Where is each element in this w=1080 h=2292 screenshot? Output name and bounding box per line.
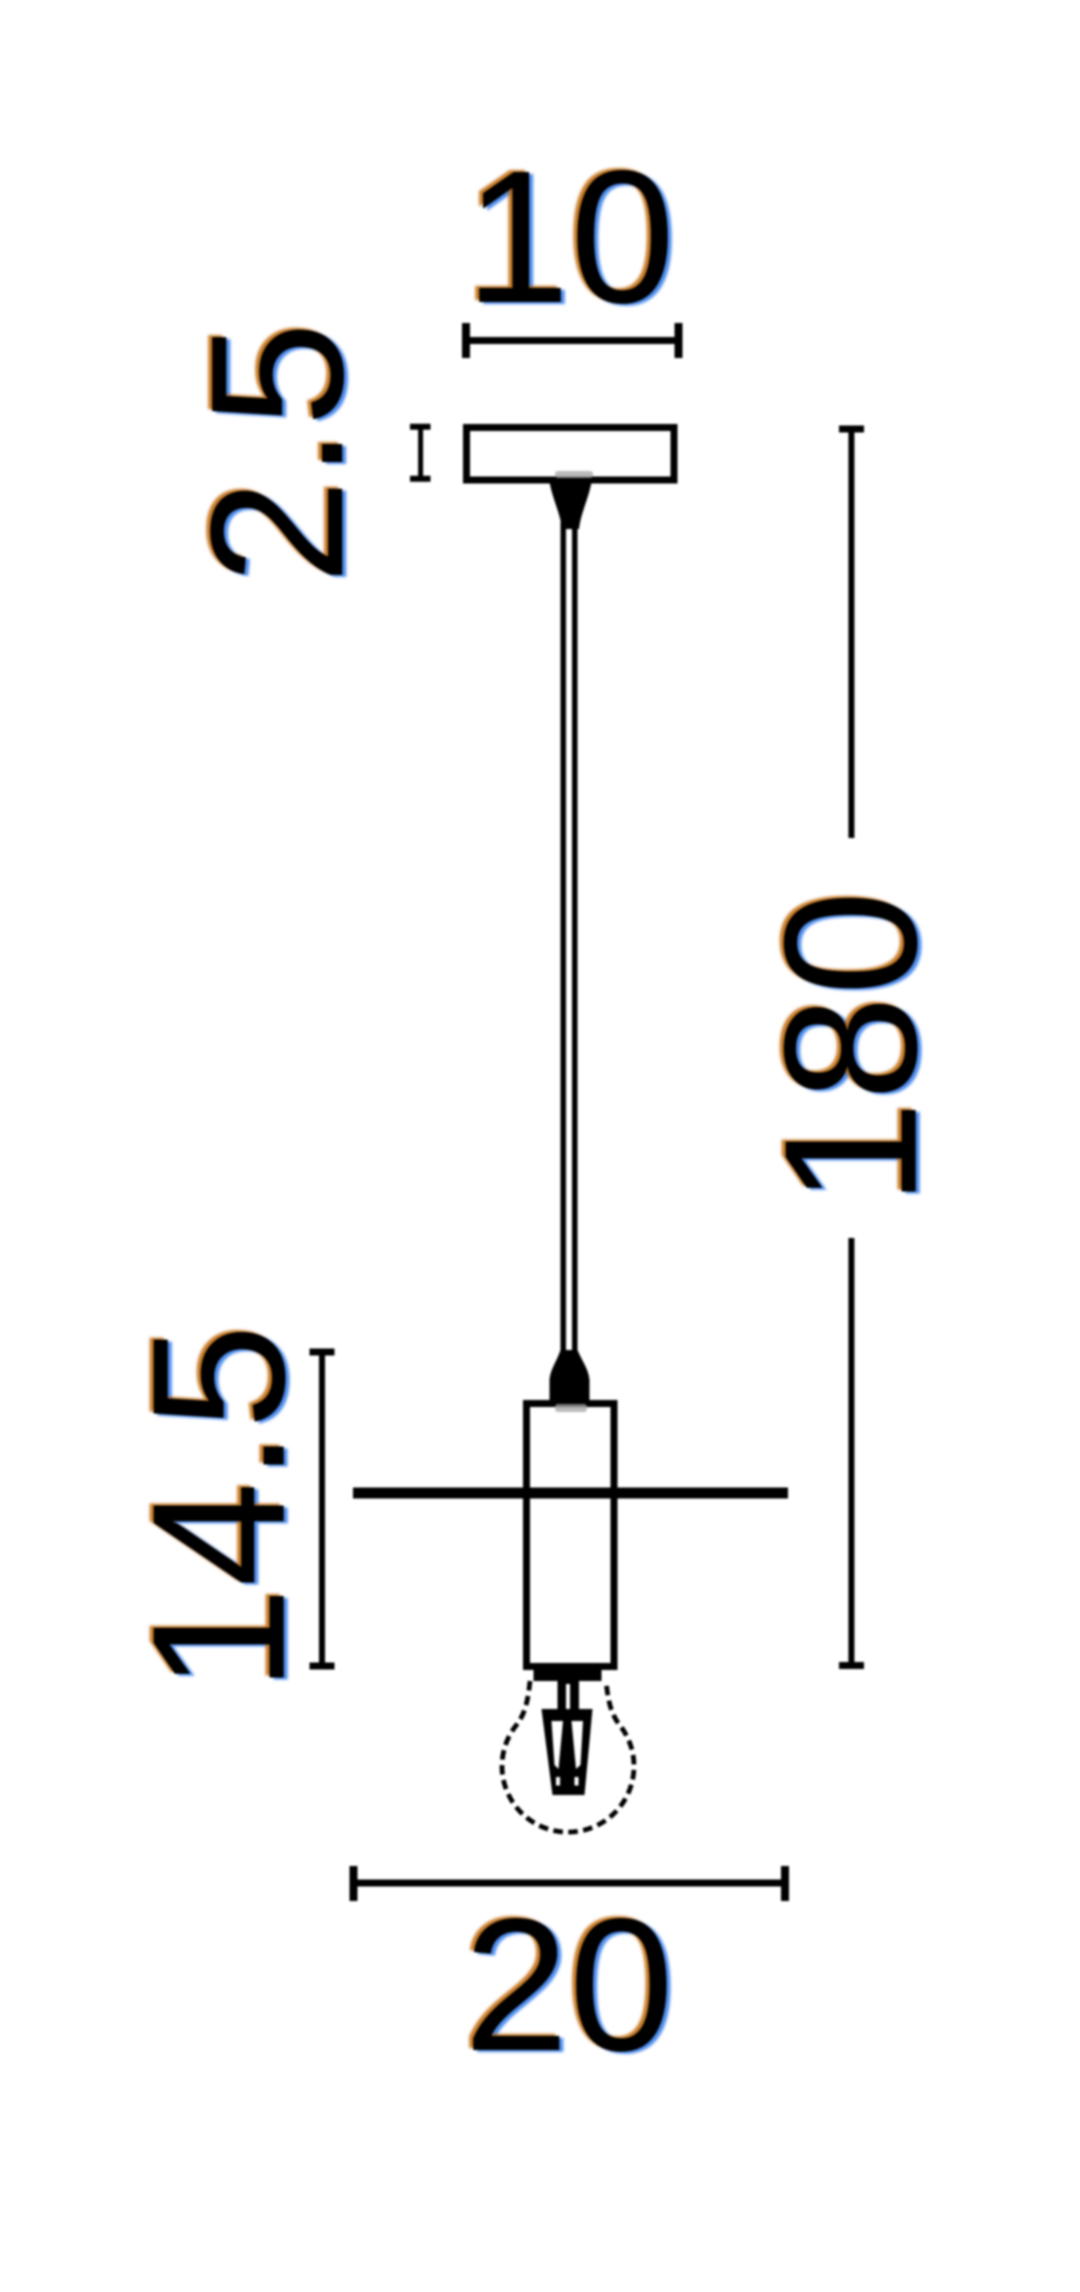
dimension line for 2.5 (small vertical, with end ticks) bbox=[410, 425, 431, 481]
dimension line for 14.5 (vertical, with end ticks) bbox=[310, 1352, 335, 1666]
lamp holder body bbox=[527, 1404, 615, 1667]
bulb glass outline bbox=[502, 1681, 634, 1832]
suspension cable (double line) bbox=[561, 522, 567, 1357]
svg-text:14.5: 14.5 bbox=[114, 1324, 325, 1692]
svg-text:10: 10 bbox=[465, 132, 675, 343]
ceiling canopy bbox=[467, 428, 675, 481]
cord grip cone under canopy bbox=[549, 480, 592, 529]
dimension line for 10 (horizontal, with end ticks) bbox=[462, 323, 683, 358]
dimension line for 20 (horizontal, with end ticks) bbox=[350, 1866, 789, 1901]
canopy inner shadow smudge bbox=[555, 471, 593, 478]
cord grip cone above holder bbox=[550, 1350, 590, 1400]
svg-text:180: 180 bbox=[746, 891, 957, 1206]
svg-text:20: 20 bbox=[464, 1880, 674, 2091]
dimension line for 180 (vertical, two segments, with end ticks) bbox=[839, 429, 864, 1666]
holder inner shadow smudge bbox=[555, 1404, 587, 1412]
lamp socket band bbox=[534, 1668, 602, 1682]
svg-text:2.5: 2.5 bbox=[172, 322, 383, 585]
bulb filament mount bbox=[542, 1709, 593, 1795]
bulb filament stem bbox=[558, 1678, 580, 1714]
mounting plate line (20 wide) bbox=[353, 1488, 788, 1499]
